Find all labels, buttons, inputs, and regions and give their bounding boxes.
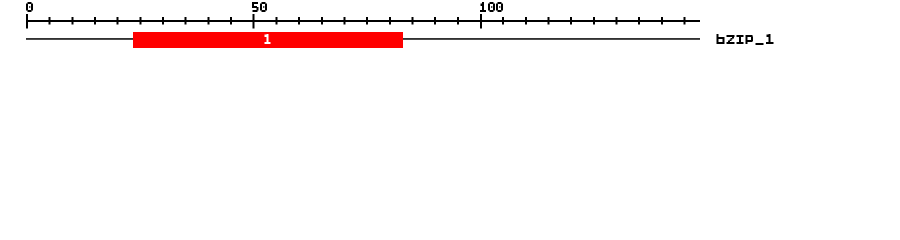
ruler axis line xyxy=(26,20,700,22)
background xyxy=(0,0,900,58)
ruler scale label 0 xyxy=(26,2,33,12)
major tick 50 xyxy=(253,14,255,29)
ruler scale label 50 xyxy=(252,2,267,12)
sequence line xyxy=(26,38,700,40)
major tick 0 xyxy=(26,14,28,29)
domain box label "1" (white) xyxy=(265,34,271,44)
minor ticks every 5 aa xyxy=(49,17,51,25)
sequence label "bZIP_1" xyxy=(717,34,774,45)
ruler scale label 100 xyxy=(480,2,503,12)
major tick 100 xyxy=(480,14,482,29)
domain box bZIP_1 (red) xyxy=(133,32,403,48)
protein domain graphic: ruler + sequence line + bZIP_1 domain box xyxy=(0,0,900,58)
